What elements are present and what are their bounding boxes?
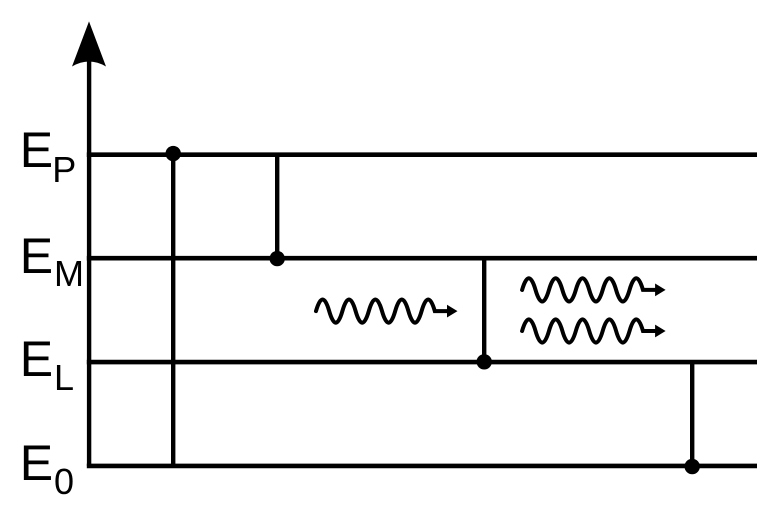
svg-text:E: E [20, 435, 53, 491]
photon wavy arrow (emitted, upper right) [522, 278, 666, 301]
transition line E_L to E_0 [690, 362, 694, 466]
transition line E_P to E_M [275, 155, 279, 259]
svg-text:E: E [20, 228, 53, 284]
transition line E_M to E_L [482, 258, 486, 362]
svg-text:L: L [54, 357, 74, 398]
node dot on E_L [477, 354, 492, 369]
level line E_L [87, 360, 757, 365]
label E_0 [20, 435, 74, 502]
photon wavy arrow (incoming, between E_M and E_L) [316, 300, 458, 323]
photon wavy arrow (emitted, lower right) [522, 319, 666, 342]
label E_L [20, 331, 74, 398]
svg-text:M: M [54, 253, 84, 294]
node dot on E_M [270, 251, 285, 266]
label E_P [20, 122, 77, 190]
level line E_0 [87, 464, 757, 469]
energy axis (vertical arrow) [72, 21, 106, 466]
svg-text:E: E [20, 331, 53, 387]
svg-text:E: E [20, 122, 53, 178]
svg-text:P: P [52, 149, 76, 190]
label E_M [20, 228, 84, 294]
svg-text:0: 0 [54, 461, 74, 502]
node dot on E_0 [685, 459, 700, 474]
level line E_M [87, 256, 757, 261]
level line E_P [87, 152, 757, 157]
node dot on E_P [166, 146, 181, 161]
transition line E_P to E_0 [171, 155, 175, 467]
